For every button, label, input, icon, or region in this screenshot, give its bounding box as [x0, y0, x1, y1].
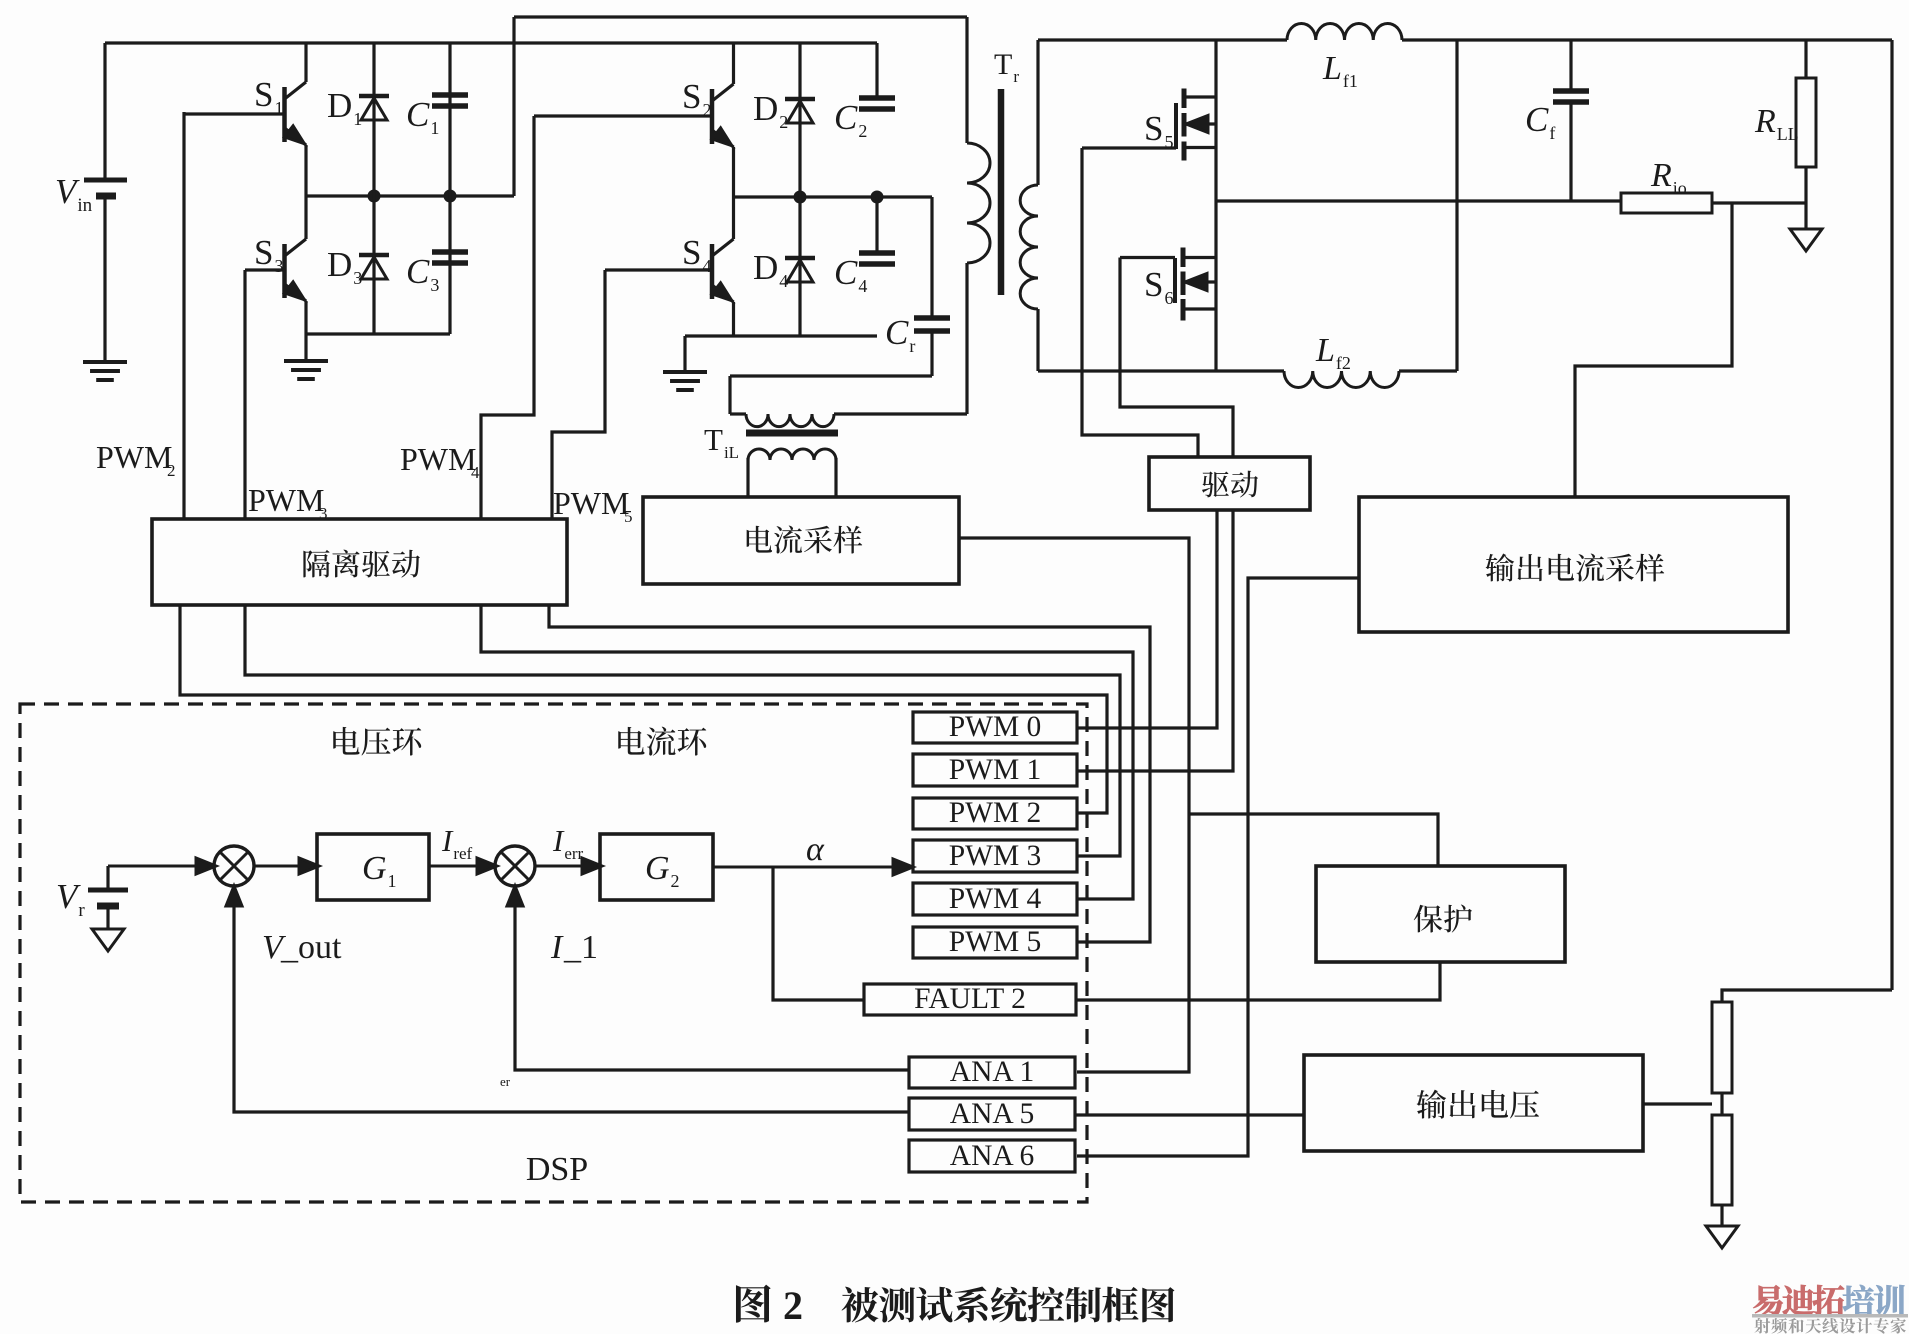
svg-text:2: 2	[167, 461, 176, 480]
svg-text:T: T	[704, 422, 723, 457]
svg-text:PWM: PWM	[553, 485, 629, 521]
svg-text:S: S	[1144, 265, 1163, 304]
svg-text:V: V	[56, 877, 81, 916]
svg-text:3: 3	[430, 275, 439, 295]
svg-text:S: S	[1144, 109, 1163, 148]
svg-text:r: r	[909, 336, 915, 356]
svg-text:PWM: PWM	[400, 441, 476, 477]
svg-text:PWM: PWM	[96, 439, 172, 475]
svg-text:PWM: PWM	[248, 482, 324, 518]
svg-text:R: R	[1754, 103, 1776, 140]
svg-text:f2: f2	[1336, 353, 1351, 373]
svg-text:err: err	[564, 844, 583, 863]
svg-text:R: R	[1650, 157, 1672, 194]
svg-text:PWM 4: PWM 4	[949, 883, 1042, 915]
svg-text:2: 2	[671, 871, 680, 891]
svg-text:FAULT 2: FAULT 2	[914, 983, 1026, 1015]
svg-text:4: 4	[858, 276, 867, 296]
svg-text:iL: iL	[724, 443, 739, 462]
svg-text:I: I	[441, 823, 454, 858]
svg-text:I: I	[550, 929, 564, 966]
svg-text:LL: LL	[1777, 124, 1799, 144]
svg-text:电压环: 电压环	[330, 717, 423, 762]
svg-text:io: io	[1673, 178, 1687, 198]
svg-text:D: D	[327, 86, 352, 125]
svg-text:3: 3	[353, 268, 362, 288]
svg-text:S: S	[682, 77, 701, 116]
svg-text:输出电压: 输出电压	[1416, 1080, 1540, 1125]
svg-text:S: S	[254, 75, 273, 114]
svg-text:5: 5	[624, 507, 633, 526]
svg-text:in: in	[77, 195, 92, 216]
svg-text:D: D	[753, 89, 778, 128]
svg-text:图: 图	[732, 1272, 773, 1331]
svg-text:C: C	[1525, 100, 1549, 139]
svg-text:PWM 5: PWM 5	[949, 926, 1042, 958]
svg-text:L: L	[1322, 50, 1342, 87]
svg-text:4: 4	[471, 463, 480, 482]
svg-text:电流环: 电流环	[615, 717, 708, 762]
svg-text:驱动: 驱动	[1201, 463, 1259, 504]
svg-text:输出电流采样: 输出电流采样	[1485, 544, 1665, 588]
svg-text:α: α	[806, 831, 825, 868]
svg-text:电流采样: 电流采样	[743, 516, 863, 560]
svg-text:L: L	[1315, 332, 1335, 369]
svg-text:PWM 0: PWM 0	[949, 711, 1042, 743]
svg-text:2: 2	[702, 100, 711, 120]
svg-text:4: 4	[702, 256, 711, 276]
svg-text:_out: _out	[280, 929, 342, 966]
svg-text:2: 2	[858, 121, 867, 141]
svg-text:C: C	[406, 252, 430, 291]
svg-text:6: 6	[1164, 288, 1173, 308]
svg-text:C: C	[885, 313, 909, 352]
svg-text:1: 1	[353, 109, 362, 129]
svg-text:ANA 6: ANA 6	[950, 1140, 1034, 1172]
svg-text:5: 5	[1164, 132, 1173, 152]
svg-text:DSP: DSP	[526, 1151, 588, 1188]
svg-text:D: D	[327, 245, 352, 284]
svg-text:I: I	[552, 823, 565, 858]
svg-text:C: C	[834, 98, 858, 137]
svg-text:隔离驱动: 隔离驱动	[301, 540, 421, 584]
svg-text:射频和天线设计专家: 射频和天线设计专家	[1754, 1313, 1907, 1334]
svg-text:G: G	[645, 850, 670, 887]
svg-text:f1: f1	[1343, 71, 1358, 91]
svg-text:PWM 3: PWM 3	[949, 840, 1042, 872]
svg-text:f: f	[1549, 123, 1555, 143]
svg-text:_1: _1	[563, 929, 598, 966]
svg-text:C: C	[406, 95, 430, 134]
svg-text:G: G	[362, 850, 387, 887]
svg-text:er: er	[500, 1074, 511, 1089]
svg-text:ref: ref	[453, 844, 472, 863]
svg-text:1: 1	[388, 871, 397, 891]
svg-text:1: 1	[430, 118, 439, 138]
svg-text:1: 1	[274, 98, 283, 118]
svg-text:S: S	[682, 233, 701, 272]
svg-text:PWM 1: PWM 1	[949, 754, 1042, 786]
svg-text:3: 3	[274, 256, 283, 276]
svg-text:r: r	[78, 900, 85, 921]
svg-text:ANA 1: ANA 1	[950, 1056, 1034, 1088]
svg-text:T: T	[994, 48, 1012, 81]
svg-text:ANA 5: ANA 5	[950, 1098, 1034, 1130]
svg-text:D: D	[753, 248, 778, 287]
svg-text:保护: 保护	[1413, 895, 1473, 939]
svg-text:2: 2	[783, 1283, 803, 1328]
svg-text:V: V	[55, 172, 80, 211]
svg-text:PWM 2: PWM 2	[949, 797, 1042, 829]
svg-text:被测试系统控制框图: 被测试系统控制框图	[841, 1275, 1176, 1330]
svg-text:r: r	[1013, 67, 1019, 86]
svg-text:S: S	[254, 233, 273, 272]
svg-text:2: 2	[779, 112, 788, 132]
svg-text:4: 4	[779, 271, 788, 291]
svg-text:C: C	[834, 253, 858, 292]
